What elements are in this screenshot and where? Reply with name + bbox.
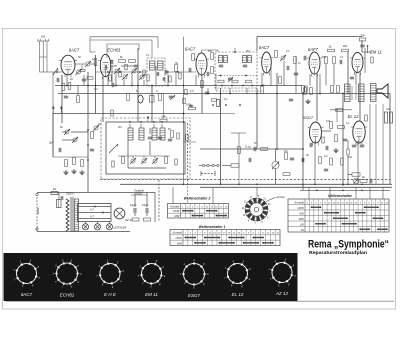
wire v103 xyxy=(102,77,104,122)
tube V8 EL12 xyxy=(353,121,365,143)
wire stub 4 xyxy=(107,77,109,86)
svg-text:Netz~: Netz~ xyxy=(36,206,40,214)
resistor R70 xyxy=(109,75,111,81)
trimmer C8 xyxy=(140,75,144,79)
wire bottom bus 1 xyxy=(120,183,392,185)
svg-text:Kontakt: Kontakt xyxy=(173,231,182,235)
wire switch stub xyxy=(256,187,258,196)
wire lamp stub1 xyxy=(85,222,87,224)
fuse 2A xyxy=(51,192,58,195)
wire af line xyxy=(200,148,303,150)
junction J1 xyxy=(61,85,63,87)
capacitor C4 xyxy=(64,95,68,97)
wire v7 down xyxy=(314,141,316,185)
svg-text:2M: 2M xyxy=(118,126,121,129)
junction J14 xyxy=(302,148,304,150)
capacitor C30 xyxy=(90,148,94,150)
resistor R72 xyxy=(147,75,149,81)
socket S2 ECH81 xyxy=(57,263,78,284)
dots if xyxy=(107,71,109,73)
antenna coupling arrow xyxy=(53,68,58,75)
svg-text:Rema „Symphonie“: Rema „Symphonie“ xyxy=(308,239,389,251)
tube socket panel xyxy=(4,253,298,301)
junction J8 xyxy=(220,93,222,95)
wire table link2 xyxy=(212,187,214,203)
oscillator dashed box xyxy=(101,118,190,179)
wire stub 6 xyxy=(115,74,117,86)
osc coil L9 xyxy=(152,128,157,140)
resistor R56 xyxy=(371,57,373,63)
IF coil L6b xyxy=(248,56,252,63)
capacitor C55 xyxy=(350,76,354,78)
ground G2 xyxy=(307,99,309,101)
wire antenna to input xyxy=(53,71,62,73)
svg-text:UKW: UKW xyxy=(298,206,305,210)
wire v152 top xyxy=(151,40,153,58)
junction J6 xyxy=(183,85,185,87)
wire dotsrow xyxy=(300,189,390,191)
resistor R17 xyxy=(217,100,220,107)
wire stub t3d xyxy=(369,187,371,199)
svg-text:Kontakt: Kontakt xyxy=(170,204,179,208)
resistor R31 xyxy=(65,160,68,167)
svg-text:UKW: UKW xyxy=(173,209,180,213)
resistor R15 xyxy=(211,53,214,60)
wire v239 xyxy=(238,133,240,184)
wire if midline a xyxy=(96,71,147,73)
resistor R75 xyxy=(183,98,185,104)
wire v53 xyxy=(52,114,54,158)
IF transformer T1 dashed box xyxy=(147,58,165,86)
resistor R51 xyxy=(119,71,121,77)
resistor R71 xyxy=(125,64,127,70)
capacitor C3 xyxy=(56,78,58,82)
wire bus113 ext xyxy=(185,113,235,115)
junction J9 xyxy=(256,93,258,95)
tuning gang arrow xyxy=(109,144,118,153)
table1 contact marks xyxy=(185,237,195,239)
osc resistor R11 xyxy=(122,157,125,164)
osc wire 3 xyxy=(132,156,134,158)
resistor R4 xyxy=(77,96,80,103)
antenna arm 2 xyxy=(42,41,44,72)
wire pw1 xyxy=(129,193,131,232)
resistor R34 xyxy=(91,132,94,139)
table Wellenschalter 1 xyxy=(170,230,280,246)
antenna arm 1 xyxy=(38,41,40,72)
osc res R59 xyxy=(175,159,177,165)
junction J7 xyxy=(201,85,203,87)
socket S6 EL12 xyxy=(228,264,248,284)
junction J10 xyxy=(276,93,278,95)
wire stub t3e xyxy=(382,187,384,199)
osc resistor R13 xyxy=(171,131,174,138)
wire v152 xyxy=(151,86,153,122)
svg-text:100k: 100k xyxy=(186,104,192,107)
resistor R63 100k xyxy=(189,107,196,110)
wire v348 xyxy=(347,52,349,94)
resistor R43 xyxy=(341,158,344,165)
capacitor C9 xyxy=(111,83,113,87)
socket S5 xyxy=(184,264,205,285)
ground G6 xyxy=(335,148,337,150)
svg-text:6AC7: 6AC7 xyxy=(259,45,270,50)
svg-text:6SG7: 6SG7 xyxy=(303,115,314,120)
junction J12 xyxy=(342,93,344,95)
IF cap C22 xyxy=(243,64,247,66)
wire stub 17 xyxy=(261,73,263,86)
junction J16 xyxy=(220,183,222,185)
wire v88 xyxy=(87,72,89,192)
svg-text:ECH81: ECH81 xyxy=(60,293,75,298)
wire top bus xyxy=(257,36,362,38)
resistor R1 xyxy=(94,59,97,66)
wire stub 11 xyxy=(167,74,169,86)
capacitor C54 xyxy=(294,72,298,74)
wire antenna down xyxy=(52,72,54,157)
svg-text:E H E: E H E xyxy=(104,292,117,297)
wire w_v1b xyxy=(61,75,63,86)
resistor R47 xyxy=(132,218,139,221)
resistor R55 xyxy=(305,86,307,92)
IF dots xyxy=(220,75,222,77)
resistor R44 xyxy=(352,173,360,176)
wire v202 xyxy=(201,75,203,114)
svg-text:ECH81: ECH81 xyxy=(107,48,121,53)
speaker xyxy=(377,84,388,98)
potentiometer P2 xyxy=(353,178,358,183)
wire bus 85 xyxy=(55,85,302,87)
trimmer C6 xyxy=(123,75,127,79)
resistor R40 xyxy=(338,126,345,129)
junction J20 xyxy=(361,183,363,185)
wire af stub1 xyxy=(347,140,349,149)
wire w_conv2 xyxy=(62,139,75,141)
tube V2 ECH81 xyxy=(100,54,110,76)
svg-text:MW: MW xyxy=(175,214,180,218)
trimmer C19 xyxy=(281,56,285,60)
wire v216 xyxy=(215,74,217,91)
capacitor C13 xyxy=(188,68,190,72)
resistor R42 xyxy=(330,158,333,165)
wire stub 25 xyxy=(355,72,357,86)
svg-text:6AF7: 6AF7 xyxy=(308,47,319,52)
capacitor C57 xyxy=(309,143,311,147)
wire osc int1 xyxy=(127,140,129,168)
osc coil L7 xyxy=(128,128,133,140)
resistor R10 10k xyxy=(160,119,167,122)
osc resistor R12 xyxy=(165,157,168,164)
resistor R50 xyxy=(80,69,85,71)
IF coil L3 xyxy=(150,61,156,70)
wire stub 18 xyxy=(270,64,272,86)
wire stub 8 xyxy=(131,74,133,86)
wire top b xyxy=(90,36,158,38)
resistor R3 xyxy=(68,83,71,90)
svg-text:Achse: Achse xyxy=(276,195,286,199)
resistor R77 xyxy=(238,147,241,154)
resistor R21 xyxy=(294,57,297,64)
svg-text:6AC7: 6AC7 xyxy=(69,48,80,53)
trimmer C28 xyxy=(73,138,77,142)
capacitor C16 xyxy=(206,72,208,76)
wire v220 xyxy=(220,88,222,184)
socket S1 6AC7 xyxy=(17,264,37,284)
IF wire center xyxy=(234,48,236,52)
wire v187 dashed xyxy=(187,123,189,180)
wire v138 xyxy=(137,48,139,122)
resistor R28 xyxy=(304,88,307,95)
wire dashed chassis xyxy=(100,179,390,181)
wire v8 down xyxy=(357,141,359,185)
osc dot row xyxy=(129,121,131,123)
svg-text:0,2: 0,2 xyxy=(324,155,328,158)
capacitor C39 xyxy=(60,196,62,200)
junction j_em xyxy=(367,45,369,47)
wire v257a xyxy=(256,37,258,52)
arrow agc xyxy=(170,95,175,100)
resistor R19 xyxy=(275,51,278,58)
resistor R37 xyxy=(283,173,290,176)
ground G4 xyxy=(73,169,75,171)
wire agc loop xyxy=(107,44,139,58)
resistor R76 xyxy=(111,110,113,116)
tube V1 6AC7 xyxy=(61,55,75,75)
wire v383 xyxy=(382,104,384,184)
capacitor C29 2pF xyxy=(58,148,60,152)
rotary wafer switch xyxy=(254,207,259,212)
trimmer C7 xyxy=(132,69,136,73)
svg-text:6AC7: 6AC7 xyxy=(185,47,196,52)
resistor R32 xyxy=(73,158,76,165)
wire stub t3a xyxy=(308,187,310,199)
transformer secondary xyxy=(75,199,79,231)
wire pw4 xyxy=(154,193,156,223)
wire bus 93 xyxy=(58,93,390,95)
resistor R8 xyxy=(159,94,162,101)
oscillator box xyxy=(106,122,185,174)
capacitor MP block xyxy=(57,200,62,208)
wire stub 16 xyxy=(246,88,248,94)
tube V7 EF11 xyxy=(310,122,322,143)
resistor R53 xyxy=(179,73,181,79)
wire v376 xyxy=(375,104,377,184)
svg-text:1M: 1M xyxy=(284,150,287,153)
osc coil L10 xyxy=(160,128,165,140)
svg-text:2A: 2A xyxy=(53,187,57,191)
dial lamp 1 xyxy=(82,224,88,230)
junction J21 xyxy=(183,183,185,185)
svg-text:0,1: 0,1 xyxy=(346,122,350,125)
junction J5 xyxy=(151,85,153,87)
resistor R6 xyxy=(129,60,136,63)
chassis arrow up A xyxy=(52,108,54,114)
trimmer C31 xyxy=(94,126,98,130)
osc wire 2 xyxy=(118,155,170,157)
capacitor C72 xyxy=(162,77,164,81)
resistor R29 xyxy=(331,86,334,93)
potentiometer P1 xyxy=(272,161,279,168)
wire lamp stub3 xyxy=(109,222,111,224)
osc res R58 xyxy=(112,161,114,167)
svg-text:2W: 2W xyxy=(360,34,365,38)
svg-text:0,1: 0,1 xyxy=(340,56,344,59)
resistor R24 2W xyxy=(359,38,366,41)
capacitor C38 xyxy=(324,168,328,170)
dots row 86 xyxy=(221,85,223,87)
electrolytic C40 10uF xyxy=(133,208,135,213)
tube V3 6AC7 xyxy=(196,53,207,75)
junction row xyxy=(212,104,214,106)
svg-text:KW: KW xyxy=(299,211,304,215)
capacitor C23 xyxy=(289,98,293,100)
osc trimmer CT7 xyxy=(131,159,135,163)
wire power top xyxy=(37,192,155,194)
chassis arrow up B xyxy=(60,108,62,114)
resistor R39 xyxy=(335,135,338,142)
osc cap C56 xyxy=(168,138,172,140)
resistor R48 xyxy=(144,218,151,221)
svg-text:2M: 2M xyxy=(246,50,249,53)
tube V5 EBF11 xyxy=(309,52,320,74)
IF resistor Rc xyxy=(246,80,252,83)
junction J17 xyxy=(256,183,258,185)
capacitor C73 xyxy=(189,104,193,106)
ground G5 xyxy=(81,170,83,172)
junction J2 xyxy=(87,85,89,87)
trimmer C27 xyxy=(65,130,69,134)
svg-text:1M: 1M xyxy=(94,88,97,91)
wire stub 5 xyxy=(111,66,113,86)
resistor R5 xyxy=(119,60,126,63)
svg-text:2W: 2W xyxy=(343,44,348,48)
resistor R7 xyxy=(127,94,130,101)
heater row 3 xyxy=(79,218,112,220)
svg-text:2pF: 2pF xyxy=(49,141,54,145)
wire stub 2 xyxy=(77,86,79,96)
svg-text:4,7: 4,7 xyxy=(90,215,94,219)
capacitor C58 xyxy=(352,144,356,146)
wire af top xyxy=(330,109,352,111)
wire af stub2 xyxy=(357,141,359,147)
transformer primary xyxy=(66,199,69,231)
resistor R25 xyxy=(325,57,328,64)
wire v257b xyxy=(256,88,258,149)
resistor R54 xyxy=(212,99,217,101)
svg-text:LW: LW xyxy=(300,222,304,226)
wire w_af1 xyxy=(321,130,331,132)
IF resistor Rb xyxy=(232,80,238,83)
wire vol link xyxy=(222,165,231,167)
heater row 1 xyxy=(79,206,112,208)
table Wellenschalter right xyxy=(288,199,389,232)
resistor R33 xyxy=(81,160,84,167)
capacitor C32 0,1 xyxy=(253,147,255,151)
table2 contact marks xyxy=(183,210,193,212)
svg-text:6AC7: 6AC7 xyxy=(21,292,33,297)
wire stub 10 xyxy=(155,66,157,86)
resistor R36 xyxy=(285,153,288,160)
transformer core xyxy=(70,197,72,232)
capacitor C59 xyxy=(360,144,364,146)
resistor R46 xyxy=(319,157,322,164)
resistor R60 xyxy=(322,137,324,143)
wire stub 14 xyxy=(207,88,209,94)
wire stub 3 xyxy=(83,75,85,86)
svg-text:EM 11: EM 11 xyxy=(145,292,158,297)
osc coil L8 xyxy=(139,128,144,140)
wire w_conv xyxy=(62,131,67,133)
wire table link1 xyxy=(187,180,189,204)
capacitor C34 xyxy=(325,146,327,150)
capacitor C11 block xyxy=(150,96,155,103)
wire v317 xyxy=(316,74,318,121)
mains terminal bottom xyxy=(36,228,38,230)
junction J15 xyxy=(276,148,278,150)
wire osc int2 xyxy=(149,128,151,134)
wire v159 dashed xyxy=(158,180,160,222)
svg-text:100: 100 xyxy=(41,35,46,39)
capacitor C53 xyxy=(164,70,166,74)
resistor R64 xyxy=(211,67,214,74)
svg-text:0,1μ: 0,1μ xyxy=(245,145,251,149)
IF coil L4 xyxy=(158,61,164,70)
resistor R52 xyxy=(143,70,145,76)
wire stub 7 xyxy=(123,80,125,86)
wire stub 12 xyxy=(175,71,177,86)
resistor R20 xyxy=(279,77,282,84)
arrow up osc xyxy=(147,117,149,122)
resistor R74 xyxy=(185,89,187,95)
dial lamp 2 xyxy=(94,224,100,230)
dash link xyxy=(201,173,215,175)
wire stub 24 xyxy=(333,64,335,86)
capacitor C35 xyxy=(343,138,347,140)
wire pw2 xyxy=(134,193,136,208)
mains dashed xyxy=(36,197,38,231)
wire v390 xyxy=(389,94,391,185)
wire power bottom xyxy=(37,231,130,233)
resistor R61 xyxy=(347,149,349,155)
capacitor C33 xyxy=(290,157,294,159)
wire v95 xyxy=(95,55,97,114)
IF coil L5a xyxy=(219,56,223,63)
svg-text:10μF: 10μF xyxy=(130,203,137,207)
wire if midline b xyxy=(165,71,196,73)
IF inner dashed xyxy=(215,75,257,77)
wire bottom bus 2 xyxy=(200,186,392,188)
wire stub 15 xyxy=(229,88,231,94)
capacitor C18 xyxy=(228,77,232,79)
wire v277 xyxy=(276,73,278,149)
antenna bracket xyxy=(39,56,47,58)
wire conv row xyxy=(53,156,88,158)
capacitor C52 xyxy=(134,64,138,66)
output transformer xyxy=(345,84,351,102)
mains terminal top xyxy=(36,193,38,195)
svg-text:ESG7: ESG7 xyxy=(188,293,201,298)
resistor R38 xyxy=(330,122,333,129)
svg-text:0,5: 0,5 xyxy=(190,90,194,93)
resistor R78 xyxy=(186,135,189,141)
wire stub 19 xyxy=(283,61,285,86)
wire bus 113 xyxy=(53,113,185,115)
svg-text:EL 12: EL 12 xyxy=(348,114,360,119)
switch contacts xyxy=(202,164,204,166)
socket S7 AZ12 xyxy=(272,263,292,283)
svg-text:MW: MW xyxy=(177,241,182,245)
trimmer C2 xyxy=(86,62,90,66)
